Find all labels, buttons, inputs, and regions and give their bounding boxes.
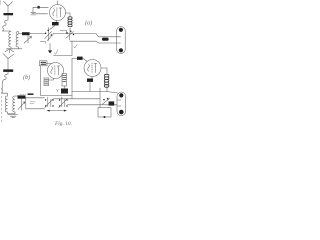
- svg-text:(a): (a): [85, 20, 92, 27]
- svg-text:(b): (b): [23, 74, 30, 81]
- svg-text:Fig. 10.: Fig. 10.: [54, 121, 72, 127]
